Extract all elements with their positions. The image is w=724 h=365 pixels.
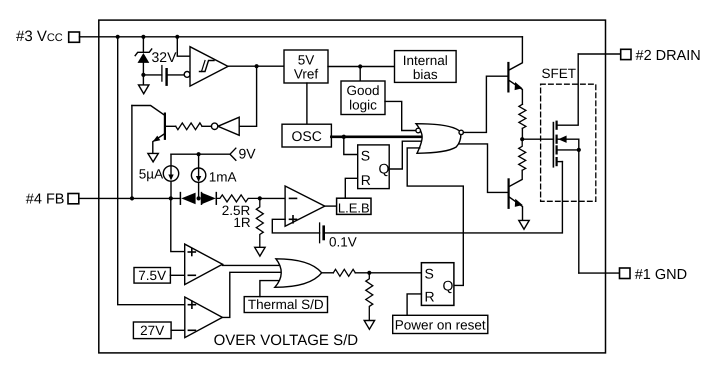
- svg-text:R: R: [425, 288, 435, 304]
- svg-text:#4 FB: #4 FB: [26, 192, 65, 208]
- schmitt trigger input bubble: [184, 72, 190, 78]
- label Internal bias: [403, 53, 448, 82]
- Thermal S/D box: [244, 297, 327, 313]
- wire schmitt output to 5V Vref: [228, 65, 284, 67]
- wire resistor to POR S input: [355, 272, 421, 274]
- svg-text:S: S: [361, 147, 370, 163]
- svg-text:#1 GND: #1 GND: [635, 267, 687, 283]
- svg-text:5µA: 5µA: [139, 166, 163, 181]
- svg-text:5V: 5V: [298, 52, 315, 67]
- minus sign U5: [188, 329, 195, 331]
- pin #3 VCC label: [16, 28, 63, 45]
- node POR-S: [367, 271, 371, 275]
- current source 5uA: [163, 154, 178, 198]
- node OSC-S: [342, 135, 346, 139]
- Internal bias box: [395, 51, 457, 83]
- label POR S: [425, 265, 434, 281]
- 7.5V box: [134, 268, 170, 284]
- node current sense: [258, 196, 262, 200]
- resistor R-b (driver chain lower): [519, 139, 526, 170]
- wire bubble to base resistor: [202, 125, 211, 127]
- ground below zener: [139, 75, 149, 94]
- schmitt trigger comparator (start-up): [190, 47, 228, 86]
- node Vcc-A: [116, 35, 120, 39]
- inverter (drives FB clamp transistor): [218, 117, 239, 135]
- node diode center: [197, 196, 201, 200]
- 27V box: [133, 322, 171, 339]
- wire node down to Good logic: [359, 67, 361, 82]
- wire schmitt output down to inverter: [239, 66, 256, 126]
- minus sign U4: [188, 274, 195, 276]
- node Vcc-B: [141, 35, 145, 39]
- wire NOR output to upper driver base: [463, 76, 508, 132]
- svg-text:9V: 9V: [239, 146, 257, 162]
- svg-text:S: S: [425, 265, 434, 281]
- node Vcc-C: [175, 35, 179, 39]
- wire U4 output to OR gate: [223, 264, 281, 265]
- wire Vcc rail: [99, 36, 523, 38]
- comparator U5 (27V OVP Vcc): [185, 297, 223, 338]
- svg-text:Q: Q: [379, 160, 390, 176]
- label SR1 Q: [379, 160, 390, 176]
- pin #1 GND square: [620, 268, 631, 279]
- zener diode 32V: [135, 37, 152, 75]
- resistor (POR pulldown): [366, 273, 373, 321]
- label 2.5R: [222, 203, 251, 218]
- svg-text:logic: logic: [349, 97, 377, 112]
- transistor Q3 (lower driver): [509, 170, 523, 220]
- label POR R: [425, 288, 435, 304]
- resistor 1R: [256, 198, 263, 247]
- svg-text:OSC: OSC: [292, 128, 322, 144]
- ground below POR resistor: [364, 321, 374, 330]
- outer IC border: [99, 20, 606, 353]
- svg-text:bias: bias: [413, 67, 438, 82]
- pin #3 VCC square: [69, 32, 80, 42]
- label Power on reset: [395, 317, 486, 332]
- label POR Q: [443, 278, 454, 294]
- wire L.E.B top to SR1 R input: [345, 178, 357, 198]
- svg-text:Power on reset: Power on reset: [395, 317, 486, 332]
- node zener-battery junction: [141, 73, 145, 77]
- pin #1 GND wire: [579, 272, 620, 274]
- node 9V-1mA: [197, 152, 201, 156]
- wire U5 output to OR gate: [222, 272, 282, 317]
- label OSC: [292, 128, 322, 144]
- svg-text:OVER VOLTAGE S/D: OVER VOLTAGE S/D: [214, 332, 359, 349]
- wire POR Q to NOR input 4: [407, 148, 463, 286]
- wire node to comparator - input: [260, 197, 285, 199]
- wire OSC to NOR (bold): [331, 135, 421, 138]
- wire Q1 collector down to FB node: [131, 106, 133, 199]
- wire Good logic to NOR input bubble: [385, 101, 416, 130]
- label 9V: [239, 146, 257, 162]
- MOSFET SFET: [553, 54, 581, 273]
- plus sign U2: [290, 216, 297, 223]
- wire battery to SFET source sense: [324, 162, 563, 233]
- pin #1 GND label: [635, 267, 687, 283]
- diode D2: [202, 193, 217, 205]
- svg-text:32V: 32V: [152, 49, 178, 65]
- node gate drive: [520, 137, 524, 141]
- svg-text:L.E.B: L.E.B: [338, 200, 370, 215]
- battery (UVLO reference): [162, 66, 167, 85]
- pin #2 DRAIN label: [636, 48, 701, 64]
- label 5uA: [139, 166, 163, 181]
- label 1R: [233, 215, 251, 230]
- Power on reset box: [393, 315, 488, 333]
- transistor Q2 (upper driver): [508, 37, 522, 105]
- svg-text:Thermal S/D: Thermal S/D: [248, 297, 324, 312]
- wire Thermal box to OR gate: [260, 281, 281, 297]
- label 5V Vref: [294, 52, 319, 81]
- wire junction to battery: [143, 74, 162, 76]
- wire comparator output to L.E.B: [325, 205, 337, 207]
- node schmitt output: [255, 64, 259, 68]
- current source 1mA: [191, 154, 205, 198]
- svg-text:1R: 1R: [233, 215, 251, 230]
- plus sign U5: [188, 301, 195, 308]
- label L.E.B: [338, 200, 370, 215]
- Good logic box: [341, 81, 385, 115]
- wire Vcc to 27V comparator + input: [118, 37, 185, 305]
- svg-text:7.5V: 7.5V: [138, 268, 166, 283]
- label SR1 R: [361, 172, 371, 188]
- wire 9V rail: [171, 153, 230, 155]
- 9V chevron: [230, 148, 236, 160]
- SR flip-flop SR1 box: [358, 145, 390, 189]
- svg-text:Vref: Vref: [294, 67, 319, 82]
- svg-text:Internal: Internal: [403, 53, 448, 68]
- label 7.5V: [138, 268, 166, 283]
- wire + input to battery 0.1V: [272, 219, 319, 233]
- NOR output bubble: [459, 130, 463, 134]
- node FB-5uA: [169, 196, 173, 200]
- ground below Q3: [519, 220, 529, 229]
- node FB-clamp: [130, 196, 134, 200]
- diode D1: [180, 193, 195, 205]
- NOR gate U3: [416, 124, 461, 154]
- battery 0.1V: [320, 223, 324, 243]
- resistor 2.5R: [216, 195, 259, 202]
- svg-text:Q: Q: [443, 278, 454, 294]
- wire Ra to gate node: [521, 128, 523, 139]
- label 32V: [152, 49, 178, 65]
- wire OR output to resistor: [322, 272, 334, 274]
- label Good logic: [346, 83, 379, 112]
- ground below 1R: [255, 247, 265, 256]
- comparator U4 (7.5V OVP FB): [185, 244, 223, 285]
- SFET dashed box: [541, 84, 596, 201]
- wire 7.5V box to comparator - input: [170, 274, 184, 276]
- wire Vref to Internal bias: [328, 66, 395, 68]
- pin #4 FB label: [26, 192, 65, 208]
- L.E.B box: [337, 198, 371, 214]
- OSC box: [282, 124, 331, 147]
- transistor Q1 (FB clamp): [132, 106, 165, 154]
- wire gate node to SFET gate: [522, 138, 553, 140]
- svg-text:#2 DRAIN: #2 DRAIN: [636, 48, 701, 64]
- comparator U2 (current sense): [285, 186, 325, 226]
- label 0.1V: [329, 234, 357, 249]
- wire Vcc pin to border: [80, 36, 99, 38]
- inverter output bubble: [211, 123, 217, 129]
- 5V Vref box: [284, 50, 328, 83]
- wire Vcc node C down to schmitt top input: [177, 37, 190, 56]
- svg-text:SFET: SFET: [542, 66, 577, 81]
- wire NOR lower output to lower driver base: [459, 144, 509, 193]
- wire SR1 Q to NOR input 3: [389, 141, 421, 169]
- minus sign U2: [290, 197, 297, 199]
- pin #4 FB square: [68, 194, 79, 204]
- node Vref-right: [358, 64, 362, 68]
- label Thermal S/D: [248, 297, 324, 312]
- plus sign U4: [188, 249, 195, 256]
- wire FB node down to 7.5V comparator + input: [171, 198, 185, 251]
- svg-text:Good: Good: [346, 83, 379, 98]
- label 27V: [140, 323, 164, 338]
- wire OSC node to SR1 S input: [344, 137, 358, 155]
- svg-text:1mA: 1mA: [209, 169, 237, 184]
- wire resistor to base: [165, 125, 176, 127]
- resistor R-a (driver chain upper): [519, 104, 526, 128]
- label SR1 S: [361, 147, 370, 163]
- OR gate U6 (protection): [275, 259, 322, 288]
- pin #2 DRAIN square: [621, 49, 631, 59]
- SR flip-flop POR box: [421, 263, 454, 306]
- wire Vref down to OSC: [306, 83, 308, 124]
- svg-text:0.1V: 0.1V: [329, 234, 357, 249]
- pin #2 DRAIN wire: [578, 53, 621, 55]
- wire POR R input: [407, 294, 421, 315]
- label OVER VOLTAGE S/D: [214, 332, 359, 349]
- label 1mA: [209, 169, 237, 184]
- wire 27V box to comparator - input: [171, 329, 185, 331]
- svg-text:27V: 27V: [140, 323, 164, 338]
- resistor (clamp transistor base): [176, 123, 202, 130]
- wire FB pin to diodes: [79, 197, 181, 199]
- ground below Q1: [148, 153, 158, 162]
- wire battery to schmitt input bubble: [167, 74, 185, 76]
- svg-text:#3 VCC: #3 VCC: [16, 28, 63, 45]
- hysteresis glyph: [200, 61, 215, 72]
- NOR input bubble: [416, 128, 421, 133]
- label SFET: [542, 66, 577, 81]
- resistor (OR output): [333, 269, 355, 276]
- svg-text:R: R: [361, 172, 371, 188]
